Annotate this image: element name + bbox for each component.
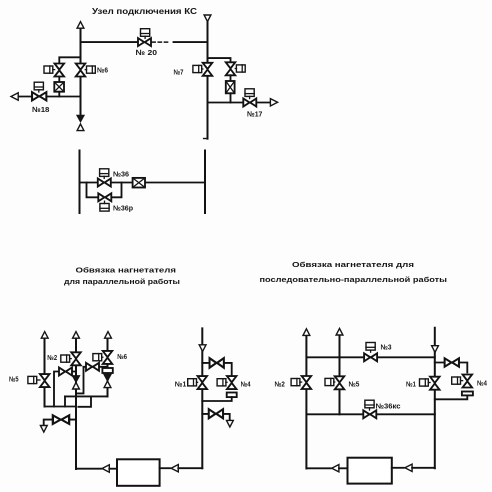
svg-text:№36: №36 xyxy=(113,170,129,179)
wire: A-B bypass xyxy=(54,372,76,407)
stem xyxy=(333,381,336,383)
stem of N17 xyxy=(249,96,251,98)
svg-text:№3: №3 xyxy=(381,343,392,352)
actuator square left of N2 xyxy=(61,355,70,362)
arrow down, top of R1 xyxy=(204,15,211,22)
line D riser xyxy=(201,328,203,468)
stem xyxy=(428,382,430,384)
valve N6 on line C xyxy=(103,351,113,364)
valve N36kc xyxy=(363,410,376,418)
svg-text:№5: №5 xyxy=(9,375,19,384)
svg-text:№1: №1 xyxy=(175,380,187,389)
valve N2 on line B xyxy=(71,352,81,365)
stem xyxy=(70,358,72,360)
svg-text:последовательно-параллельной р: последовательно-параллельной работы xyxy=(260,275,448,284)
valve drain B xyxy=(53,415,69,424)
wire: arrow to box xyxy=(109,468,117,470)
wire: N36p bypass loop xyxy=(87,183,122,198)
svg-text:№7: №7 xyxy=(174,68,184,77)
actuator square left of N1 xyxy=(188,379,197,386)
svg-text:№18: №18 xyxy=(32,105,49,114)
actuator square left of N6 xyxy=(93,354,102,361)
stem of N3 xyxy=(370,350,372,352)
wire: N36 crossover line xyxy=(80,182,206,184)
valve N1 on line G xyxy=(430,377,440,390)
svg-text:№17: №17 xyxy=(247,110,262,119)
arrow up, top of line A xyxy=(41,332,48,339)
stem of N18 xyxy=(38,90,40,92)
actuator square left of N7 xyxy=(193,65,202,72)
wire: arrow to box xyxy=(339,467,348,469)
arrow down, drain D end xyxy=(227,420,234,427)
stem xyxy=(37,379,40,381)
arrow down on line G xyxy=(432,346,439,353)
actuator square left of N4 xyxy=(217,379,226,386)
line G riser xyxy=(434,328,436,468)
wire: N4 branch rejoin xyxy=(202,397,231,401)
arrow up, top of line E xyxy=(303,329,310,336)
svg-text:№5: №5 xyxy=(349,380,360,389)
stem xyxy=(202,68,203,70)
svg-text:№6: №6 xyxy=(117,352,127,361)
stem xyxy=(300,381,302,383)
actuator square of N36kc xyxy=(365,400,374,408)
wire: dashed segment right of valve 20 xyxy=(152,41,168,43)
node L1 riser (main left line) xyxy=(80,28,82,115)
valve N7 on R1 xyxy=(203,63,213,76)
valve G branch bypass xyxy=(445,358,459,366)
stem of N36kc xyxy=(369,408,371,410)
valve N6 on L1 xyxy=(76,64,86,77)
svg-text:№36кс: №36кс xyxy=(376,402,401,411)
stem xyxy=(85,69,86,71)
flow restrictor box on line C xyxy=(102,368,112,373)
actuator square left of branch valve xyxy=(44,66,53,73)
valve N17 xyxy=(243,99,256,107)
valve N36 xyxy=(98,179,111,187)
actuator square right of N6 xyxy=(87,66,96,73)
node R1 riser (main right line) xyxy=(207,22,209,139)
break symbol on line B: open arrow up xyxy=(73,382,80,389)
arrow up, top of line B xyxy=(73,332,80,339)
wire: stair H2 (C down to left) xyxy=(65,395,108,397)
valve B-C bypass xyxy=(86,363,99,371)
stem of N36 xyxy=(103,176,105,178)
compressor box (bottom-left) xyxy=(117,459,160,486)
arrow up, top of line C xyxy=(105,332,112,339)
line C riser xyxy=(107,338,109,396)
nub at bottom of R1 xyxy=(204,138,208,140)
svg-text:№4: №4 xyxy=(241,380,251,389)
x-box (crossed square) left branch xyxy=(54,82,64,92)
wire: box right to arrow xyxy=(160,467,170,469)
wire: crossover header L1 to valve 20 xyxy=(81,41,138,43)
wire: stair H1 (bottom collector) xyxy=(45,406,77,408)
wire: x-box down to N17 line xyxy=(230,93,232,102)
valve N2 on line E xyxy=(302,376,312,389)
valve N4 on branch xyxy=(463,375,473,388)
arrow left end of N18 line xyxy=(11,93,18,100)
actuator square of N36p (below) xyxy=(100,204,109,212)
wire: B-C bypass xyxy=(77,367,108,394)
stem xyxy=(461,380,463,382)
break symbol on line C: open arrow up xyxy=(104,381,111,388)
actuator square of N17 xyxy=(245,89,254,97)
stem of N20 xyxy=(144,36,146,38)
wire: arrow to line G xyxy=(412,467,435,469)
valve N36p xyxy=(98,193,111,201)
compressor box (bottom-right) xyxy=(348,458,392,484)
x-box wide on N36 line xyxy=(133,178,145,188)
wire: stair V1 xyxy=(64,396,66,406)
node R2 riser (lower loop right) xyxy=(204,151,206,214)
restrictor box below N4 xyxy=(462,392,473,396)
wire: drain line off B xyxy=(44,420,76,426)
restrictor box below N4 xyxy=(227,393,237,398)
wire: solid header to R1 xyxy=(174,41,208,43)
break symbol on line B: filled arrow down xyxy=(72,376,79,383)
line F riser xyxy=(339,335,341,414)
wire: x-box down to N18 line xyxy=(58,92,60,97)
actuator square of N18 xyxy=(34,82,43,90)
x-box (crossed square) right branch xyxy=(226,81,235,93)
arrow left, right of compressor (right diagram) xyxy=(405,464,412,471)
svg-text:№1: №1 xyxy=(406,380,416,389)
svg-text:Обвязка нагнетателя для: Обвязка нагнетателя для xyxy=(292,260,414,269)
break symbol on L1: filled arrow down xyxy=(77,115,84,122)
arrow left, right of compressor xyxy=(171,465,178,472)
actuator square of N20 xyxy=(141,29,150,37)
stem xyxy=(53,69,55,71)
node L2 riser (lower loop left) xyxy=(79,151,81,214)
stem xyxy=(226,381,227,383)
arrow up, top of line F xyxy=(336,328,343,335)
actuator square left of N1 xyxy=(420,379,429,386)
valve N4 on branch xyxy=(227,376,237,389)
wire: N4 branch rejoin to G xyxy=(435,395,468,399)
line B riser xyxy=(75,338,77,469)
line E riser xyxy=(305,335,307,468)
arrow left, before compressor (right diagram) xyxy=(332,465,339,472)
svg-text:Узел подключения КС: Узел подключения КС xyxy=(92,6,197,16)
valve drain D xyxy=(209,409,223,418)
wire: left bypass branch header xyxy=(59,57,80,64)
valve D branch bypass xyxy=(210,358,224,368)
arrow right end of N17 line xyxy=(270,99,277,106)
wire: branch valve to x-box xyxy=(58,77,60,83)
actuator square left of N5 xyxy=(325,378,334,385)
wire: E bottom run to compressor xyxy=(306,467,330,469)
wire: G-N4 branch header xyxy=(435,363,468,373)
svg-text:№2: №2 xyxy=(275,380,285,389)
valve left branch (top-left) xyxy=(55,64,65,77)
wire: B bottom run to compressor xyxy=(76,468,101,470)
break symbol on line C: filled arrow down xyxy=(104,374,111,381)
line A riser xyxy=(44,338,46,407)
actuator square of N3 xyxy=(366,343,375,351)
wire: middle header E to G xyxy=(306,413,434,415)
wire: arrow to line D xyxy=(178,467,202,469)
arrow down on line D xyxy=(199,345,206,352)
actuator square of N36 xyxy=(100,169,109,177)
valve N1 on line D xyxy=(198,376,208,389)
wire: N18 drain line xyxy=(19,96,80,98)
svg-text:№36р: №36р xyxy=(113,204,134,213)
arrow left, before compressor xyxy=(102,465,109,472)
svg-text:Обвязка нагнетателя: Обвязка нагнетателя xyxy=(76,266,177,275)
wire: box right to arrow xyxy=(392,467,404,469)
valve N20 xyxy=(138,38,151,46)
arrow up, top of L1 xyxy=(77,22,84,29)
svg-text:для параллельной работы: для параллельной работы xyxy=(64,277,180,286)
valve A-B bypass xyxy=(59,368,72,376)
svg-text:№6: №6 xyxy=(97,66,108,75)
wire: right bypass branch header xyxy=(208,58,231,63)
actuator square left of N2 xyxy=(291,379,300,386)
valve right branch (top-right) xyxy=(226,62,236,75)
wire: stair hook right of B xyxy=(78,396,91,406)
actuator square right of branch valve xyxy=(236,65,245,72)
wire: D-N4 branch header xyxy=(202,363,231,376)
actuator square left of N4 xyxy=(452,377,461,384)
svg-text:№2: №2 xyxy=(47,353,57,362)
wire: drain off line D xyxy=(202,414,229,420)
valve N18 xyxy=(32,92,46,100)
stem of N36p xyxy=(104,201,106,203)
wire: top header E to G xyxy=(306,356,434,358)
svg-text:№ 20: № 20 xyxy=(136,48,158,57)
break symbol on L1: open arrow up xyxy=(77,124,84,131)
svg-text:№4: №4 xyxy=(477,379,487,388)
stem xyxy=(197,381,198,383)
wire: N17 outlet line xyxy=(208,102,271,104)
actuator square left of N5 xyxy=(28,376,37,383)
valve N5 on line A xyxy=(40,374,50,387)
wire: branch valve to x-box xyxy=(230,75,232,81)
stem xyxy=(102,356,103,358)
valve N5 on line F xyxy=(335,376,345,389)
valve N3 xyxy=(364,353,377,361)
stem xyxy=(235,68,236,70)
arrow down, drain B end xyxy=(40,426,47,433)
